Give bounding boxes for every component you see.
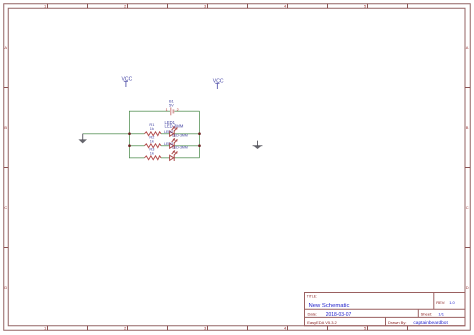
svg-text:EasyEDA V5.3.2: EasyEDA V5.3.2: [307, 320, 337, 325]
svg-text:TITLE:: TITLE:: [307, 295, 317, 299]
svg-text:VCC: VCC: [213, 79, 224, 85]
svg-text:LED-3MM: LED-3MM: [165, 124, 184, 129]
svg-text:5V: 5V: [169, 102, 174, 107]
svg-text:captainbeardbot: captainbeardbot: [413, 320, 448, 326]
svg-text:New Schematic: New Schematic: [309, 303, 350, 309]
svg-text:1k: 1k: [150, 151, 154, 156]
svg-text:A: A: [4, 45, 7, 50]
svg-text:A: A: [466, 45, 469, 50]
svg-text:1: 1: [166, 108, 168, 112]
svg-text:1/1: 1/1: [438, 312, 444, 317]
svg-text:VCC: VCC: [122, 77, 133, 83]
svg-text:B: B: [4, 125, 7, 130]
svg-text:Sheet:: Sheet:: [421, 312, 433, 317]
svg-text:1k: 1k: [150, 126, 154, 131]
svg-text:2: 2: [177, 108, 179, 112]
svg-text:D: D: [4, 285, 7, 290]
svg-text:LED-3MM: LED-3MM: [172, 134, 188, 138]
svg-text:C: C: [466, 205, 469, 210]
svg-text:Date:: Date:: [308, 312, 318, 317]
svg-text:1k: 1k: [150, 139, 154, 144]
svg-text:C: C: [4, 205, 7, 210]
svg-text:1.0: 1.0: [449, 300, 455, 305]
svg-text:D: D: [466, 285, 469, 290]
svg-text:LED-3MM: LED-3MM: [172, 146, 188, 150]
svg-text:REV:: REV:: [436, 300, 445, 305]
svg-text:2018-03-07: 2018-03-07: [326, 312, 352, 318]
svg-text:B: B: [466, 125, 469, 130]
svg-text:Drawn By:: Drawn By:: [388, 320, 406, 325]
